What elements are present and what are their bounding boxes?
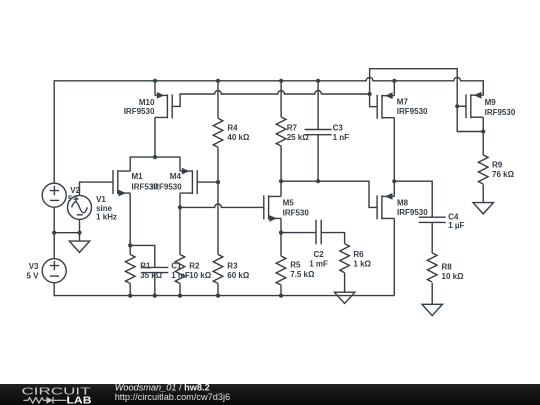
svg-text:7.5 kΩ: 7.5 kΩ	[290, 270, 315, 279]
svg-text:R4: R4	[227, 124, 238, 133]
resistor R1 35k	[125, 255, 162, 284]
wire M9 drain	[482, 117, 484, 155]
resistor R7 25k	[276, 117, 309, 146]
wire M9 source	[482, 81, 484, 95]
svg-text:R6: R6	[353, 250, 364, 259]
svg-text:IRF9530: IRF9530	[485, 108, 516, 117]
CircuitLab logo	[22, 386, 92, 405]
wire C4 to R8	[431, 222, 433, 253]
svg-text:IRF530: IRF530	[283, 209, 310, 218]
node M1 source	[128, 243, 132, 247]
wire C2 to R6	[321, 233, 344, 244]
svg-text:M4: M4	[170, 172, 182, 181]
transistor M1 IRF530	[113, 170, 158, 196]
svg-text:LAB: LAB	[67, 395, 92, 405]
node M5 source	[279, 231, 283, 235]
wire R2 bottom	[179, 284, 181, 296]
wire M5 source to C2	[281, 232, 316, 234]
wire R6 bottom	[344, 273, 346, 293]
capacitor C2 1mF	[309, 220, 328, 268]
wire V1 to M1 gate	[80, 182, 114, 196]
wire bias upper rail	[370, 69, 458, 107]
voltage source V2	[42, 183, 80, 207]
transistor M10 IRF9530	[124, 92, 172, 118]
wire V1 bottom	[79, 219, 81, 233]
svg-text:sine: sine	[96, 204, 113, 213]
ground G4	[422, 304, 442, 315]
capacitor C4 1uF	[419, 213, 465, 231]
node bias	[368, 92, 372, 96]
svg-text:M10: M10	[139, 98, 155, 107]
node rail-R7	[279, 79, 283, 83]
svg-text:1 kΩ: 1 kΩ	[353, 259, 371, 268]
svg-text:M5: M5	[283, 198, 295, 207]
svg-text:R8: R8	[442, 263, 453, 272]
wire C1 top	[130, 245, 155, 267]
svg-text:V3: V3	[29, 262, 39, 271]
svg-text:1 nF: 1 nF	[333, 133, 350, 142]
wire M4 drain to R2	[179, 193, 181, 254]
wire V3 top	[53, 233, 55, 259]
wire M4 to M5 gate	[180, 204, 264, 207]
footer bar	[0, 384, 540, 405]
wire M8 drain	[393, 218, 395, 295]
svg-text:IRF9530: IRF9530	[124, 107, 155, 116]
node V1 minus	[77, 231, 81, 235]
node rail-M7	[392, 79, 396, 83]
wire C3 bottom	[317, 135, 319, 182]
svg-text:1 µF: 1 µF	[448, 221, 464, 230]
svg-text:V1: V1	[96, 195, 106, 204]
voltage source V1 sine	[68, 195, 118, 221]
svg-text:http://circuitlab.com/cw7d3j6: http://circuitlab.com/cw7d3j6	[115, 392, 230, 402]
transistor M7 IRF9530	[377, 92, 428, 118]
wire M7 source	[393, 81, 395, 96]
node rail-C3	[316, 79, 320, 83]
wire M1-M4 drain bus	[130, 157, 180, 171]
resistor R3 60k	[213, 255, 250, 284]
svg-text:R3: R3	[227, 261, 238, 270]
node rail-R5	[279, 294, 283, 298]
ground G2	[334, 292, 354, 303]
resistor R5 7.5k	[276, 256, 315, 285]
resistor R6 1k	[340, 244, 372, 273]
wire M5 source to R5	[280, 218, 282, 256]
svg-text:M7: M7	[397, 97, 409, 106]
wire C4 branch	[394, 181, 432, 217]
svg-text:R1: R1	[140, 261, 151, 270]
capacitor C1 1mF	[141, 261, 190, 280]
node rail-R1	[128, 294, 132, 298]
resistor R8 10k	[427, 253, 464, 282]
svg-text:R9: R9	[492, 160, 503, 169]
wire M7 gate lead	[370, 94, 378, 107]
svg-text:M9: M9	[485, 98, 497, 107]
svg-text:M8: M8	[397, 199, 409, 208]
wire M7 drain to M8 source	[393, 118, 395, 197]
wire M9 gate lead	[457, 105, 466, 107]
node C4 tap	[392, 179, 396, 183]
wire C3 top	[317, 81, 319, 130]
ground G3	[473, 203, 493, 214]
wire ground lead G1	[79, 233, 81, 241]
svg-text:1 kHz: 1 kHz	[96, 213, 117, 222]
wire R5 bottom	[280, 285, 282, 296]
resistor R9 76k	[478, 155, 514, 184]
wire M10 drain	[154, 117, 156, 157]
wire M1 source to R1	[129, 193, 131, 254]
node M5 drain	[279, 179, 283, 183]
wire C1 bottom	[154, 273, 156, 296]
wire M4 gate lead	[197, 181, 218, 183]
voltage source V3	[26, 259, 66, 283]
capacitor C3 1nF	[305, 124, 350, 143]
svg-text:C3: C3	[333, 124, 344, 133]
transistor M5 IRF530	[264, 195, 310, 221]
node M9 drain	[481, 129, 485, 133]
node rail-M10	[153, 79, 157, 83]
svg-text:76 kΩ: 76 kΩ	[492, 170, 515, 179]
svg-text:60 kΩ: 60 kΩ	[227, 271, 250, 280]
svg-text:IRF9530: IRF9530	[397, 107, 428, 116]
wire VDD rail	[54, 77, 483, 184]
node rail-R4	[216, 79, 220, 83]
wire M10 source	[154, 81, 156, 96]
svg-text:R7: R7	[287, 124, 298, 133]
wire R3 bottom	[217, 284, 219, 296]
svg-text:5 V: 5 V	[26, 272, 39, 281]
wire V2-V1 link	[54, 232, 79, 234]
wire M5 drain bus to M8 gate	[281, 181, 377, 207]
wire M9 gate-drain tie	[457, 106, 483, 131]
svg-text:IRF9530: IRF9530	[151, 183, 182, 192]
node rail-R2	[178, 294, 182, 298]
wire M10 gate to bias node	[172, 91, 369, 107]
node C3-M5	[316, 179, 320, 183]
wire R7 top	[280, 81, 282, 117]
wire R4 to R3	[217, 147, 219, 254]
svg-text:10 kΩ: 10 kΩ	[442, 272, 465, 281]
svg-text:1 mF: 1 mF	[309, 259, 328, 268]
transistor M4 IRF9530	[151, 168, 197, 194]
ground G1	[69, 241, 89, 252]
transistor M9 IRF9530	[466, 92, 516, 118]
node rail-C1	[153, 294, 157, 298]
wire R1 bottom	[129, 284, 131, 296]
svg-text:10 kΩ: 10 kΩ	[189, 271, 212, 280]
svg-text:R2: R2	[189, 261, 200, 270]
resistor R4 40k	[213, 118, 250, 147]
svg-text:C2: C2	[313, 250, 324, 259]
svg-text:M1: M1	[132, 172, 144, 181]
node V2 minus	[52, 231, 56, 235]
svg-text:R5: R5	[290, 261, 301, 270]
svg-text:IRF9530: IRF9530	[397, 208, 428, 217]
wire R9 bottom	[482, 185, 484, 203]
node M10 drain	[153, 155, 157, 159]
node M9 gate	[455, 104, 459, 108]
svg-text:40 kΩ: 40 kΩ	[227, 133, 250, 142]
node rail-R3	[216, 294, 220, 298]
wire V2 bottom	[53, 208, 55, 233]
wire R4 top	[217, 81, 219, 119]
wire M5 drain	[280, 181, 282, 196]
node M4 gate	[216, 180, 220, 184]
wire R7 bottom	[280, 146, 282, 181]
wire R8 bottom	[431, 283, 433, 304]
wire ground rail	[54, 282, 394, 295]
node M4 source	[178, 205, 182, 209]
transistor M8 IRF9530	[377, 193, 428, 219]
resistor R2 10k	[175, 255, 212, 284]
